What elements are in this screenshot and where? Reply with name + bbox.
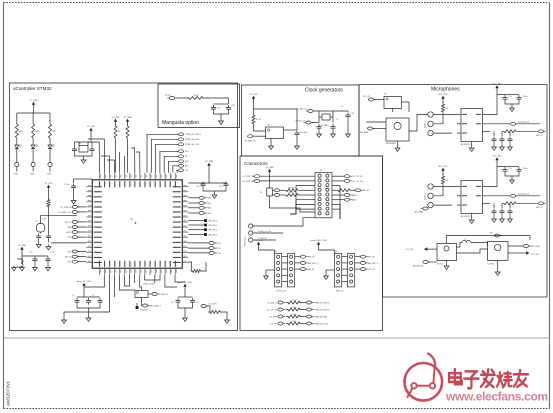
- wire J1r UC_JTJ_TXa: [332, 180, 344, 182]
- svg-text:JP1/P: JP1/P: [165, 95, 171, 97]
- wire VCC rail2 2: [505, 166, 519, 168]
- wire mic gnd 1: [433, 132, 452, 134]
- svg-text:C 1u: C 1u: [508, 168, 512, 170]
- wire C23 gnd: [347, 119, 349, 132]
- capacitor C19: [46, 234, 51, 241]
- resistor R5: [47, 198, 50, 209]
- wire MK1 gnd: [397, 141, 399, 146]
- capacitor C21: [503, 95, 508, 102]
- wire pullup1 stub: [115, 124, 117, 127]
- wire U9 out: [508, 252, 523, 254]
- crystal Y2 32kHz: [37, 224, 45, 233]
- wire U2 down2: [141, 303, 143, 306]
- U8 membrane circle: [444, 246, 449, 251]
- svg-text:ABD7: ABD7: [352, 194, 357, 197]
- pad MK2_BIAS: [423, 207, 428, 210]
- svg-text:U6: U6: [384, 94, 386, 96]
- wire BOOT0: [77, 221, 86, 223]
- U3 pin circle: [268, 129, 270, 131]
- pad PTMB_GB_GPIO1: [178, 133, 183, 136]
- crystal X1: [79, 146, 88, 153]
- wire blockA gnd rail: [77, 305, 100, 308]
- wire J1 UC_SWT_TX: [260, 175, 315, 177]
- arrow input VCC_LIN: [425, 248, 433, 250]
- capacitor C13: [86, 298, 91, 305]
- wire capc1b 1: [501, 143, 503, 145]
- wire capc2b 2: [509, 215, 511, 217]
- svg-text:www.elecfans.com: www.elecfans.com: [445, 390, 548, 404]
- wire crystal vdd: [90, 134, 92, 142]
- svg-text:PTMB_GB_CKIO: PTMB_GB_CKIO: [185, 144, 200, 146]
- wire cap gnd rail 1: [505, 102, 519, 104]
- ground C15: [46, 266, 51, 271]
- pad UC_EMB_CK: [248, 135, 253, 138]
- svg-text:GPD: GPD: [67, 262, 72, 264]
- pad all_OSC_CK: [306, 121, 311, 124]
- capacitor C27: [211, 105, 216, 112]
- svg-text:GND: GND: [30, 174, 35, 176]
- pad MIC_CK: [368, 98, 373, 101]
- wire U3 out: [284, 129, 298, 131]
- pad PTMB_GB_SDIO: [178, 138, 183, 141]
- wire JP1 to R100: [175, 97, 189, 99]
- watermark text shao (burn): [497, 372, 512, 388]
- capacitor C16: [201, 182, 206, 189]
- oscillator U2: [135, 291, 148, 298]
- wire cap top rail: [214, 103, 229, 105]
- wire C23 top: [347, 111, 349, 112]
- resistor R21: [502, 202, 518, 205]
- wire R13 to gnd: [222, 312, 227, 318]
- pad UC_JTC_IN: [278, 308, 283, 311]
- capacitor C11: [90, 147, 95, 154]
- wire fuse top: [269, 175, 271, 189]
- wire pullup1 to pin: [115, 140, 117, 173]
- svg-text:AKT_IN: AKT_IN: [65, 256, 72, 259]
- wire U1 top net2: [107, 160, 115, 173]
- wire AUTE: [77, 231, 86, 233]
- pad EN: [494, 234, 499, 237]
- svg-text:2k2: 2k2: [446, 180, 449, 182]
- wire JP2: [188, 220, 204, 222]
- capacitor C22: [517, 95, 522, 102]
- resistor R100: [187, 97, 205, 100]
- page border frame left: [3, 3, 5, 409]
- ground Mangusta: [219, 119, 224, 124]
- power VCC_MIC row1: [496, 88, 498, 91]
- wire J1 SCL drop: [290, 204, 296, 214]
- ground J3: [324, 274, 329, 279]
- section box Clock generators: [242, 85, 360, 156]
- wire C21 gnd: [318, 131, 320, 132]
- wire PB11: [188, 202, 199, 204]
- svg-text:C7: C7: [336, 119, 338, 121]
- capacitor C21: [317, 124, 322, 131]
- arrow output VCC_MIC: [523, 252, 528, 254]
- svg-text:R 47k: R 47k: [292, 321, 297, 323]
- wire U9 gnd: [497, 261, 499, 271]
- svg-text:R9 0R: R9 0R: [288, 192, 294, 194]
- wire C15 gnd: [47, 263, 49, 266]
- watermark logo pad B: [430, 383, 435, 388]
- wire J1 SDA drop: [290, 200, 296, 214]
- svg-text:Connectors: Connectors: [244, 161, 268, 166]
- svg-text:GPO: GPO: [67, 251, 72, 253]
- wire U9 out2: [508, 245, 523, 247]
- wire U8 to L2: [457, 243, 461, 248]
- pad PTMB_GB_CKIO: [178, 143, 183, 146]
- svg-text:ST1S12: ST1S12: [437, 263, 444, 265]
- U1 bottom pin names: [99, 261, 176, 267]
- wire PC12: [188, 252, 209, 254]
- pad GPD: [72, 260, 77, 263]
- svg-text:12pF: 12pF: [42, 219, 46, 221]
- svg-text:UC_RX: UC_RX: [271, 323, 278, 325]
- svg-text:C 100n: C 100n: [522, 96, 528, 98]
- svg-text:C20 100n: C20 100n: [300, 132, 308, 134]
- svg-text:LD3985: LD3985: [488, 263, 494, 265]
- ground caps row2: [510, 178, 515, 183]
- wire bottom to U2: [120, 275, 136, 290]
- test connector P2: [249, 231, 253, 235]
- wire to crystal ground: [83, 156, 85, 158]
- wire U1 out: [483, 123, 511, 125]
- wire pad to R13: [206, 306, 210, 312]
- svg-text:VC_VBB: VC_VBB: [18, 245, 27, 247]
- capacitor C12: [71, 184, 76, 191]
- pad MB_DATA: [142, 304, 147, 307]
- svg-text:UC_BAT_U: UC_BAT_U: [267, 301, 277, 304]
- svg-text:MB_DATA_2: MB_DATA_2: [150, 304, 161, 307]
- svg-text:PB11: PB11: [207, 203, 211, 205]
- ground capc1 row2: [500, 217, 505, 222]
- svg-text:GND: GND: [14, 174, 19, 176]
- svg-text:UC_SWT_RX: UC_SWT_RX: [242, 181, 254, 183]
- ground capc2 row1: [508, 145, 513, 150]
- wire UC_SWD_OUT: [77, 211, 86, 213]
- capacitor C27: [517, 167, 522, 174]
- wire J1r GN drop: [332, 204, 340, 219]
- pad UC_JTJ_TXa: [344, 179, 349, 182]
- wire cap gnd stub 2: [511, 176, 513, 178]
- wire U2 out: [148, 293, 152, 295]
- svg-text:PW: PW: [185, 170, 188, 172]
- capacitor C14: [98, 298, 103, 305]
- resistor R4: [49, 122, 52, 140]
- resistor R19: [502, 130, 518, 133]
- svg-text:C23: C23: [351, 113, 354, 115]
- svg-text:UC_SWO: UC_SWO: [209, 304, 218, 306]
- wire pullup2 stub: [127, 124, 129, 127]
- pad UC_JTK_IN: [344, 175, 349, 178]
- wire AKT_IN: [77, 256, 86, 258]
- svg-text:C 1u: C 1u: [508, 96, 512, 98]
- svg-text:VC_VBB: VC_VBB: [30, 100, 39, 102]
- pad MIC_500B: [523, 245, 528, 248]
- wire blockC gnd rail: [178, 305, 193, 308]
- capacitor C20: [295, 131, 300, 138]
- wire bottom to blockC2: [175, 275, 185, 282]
- page border frame bottom: [4, 408, 550, 410]
- pad UC_RX: [278, 322, 283, 325]
- wire J3 gnd row: [326, 269, 335, 271]
- wire C14 gnd: [34, 263, 36, 266]
- wire bottom loop: [125, 275, 130, 286]
- wire GPO: [77, 251, 86, 253]
- wire J2 out1: [295, 262, 301, 264]
- wire DL1 to pin: [16, 151, 18, 163]
- svg-text:UC_VDD: UC_VDD: [249, 94, 258, 96]
- inductor L2: [460, 240, 473, 242]
- svg-text:VCC_MIC: VCC_MIC: [492, 156, 502, 158]
- wire U1 top net5: [131, 148, 135, 173]
- wire brow 316.5: [302, 316, 306, 318]
- wire C10 to X1: [75, 142, 80, 147]
- pad ATB: [72, 226, 77, 229]
- capacitor C12: [75, 298, 80, 305]
- svg-text:C14: C14: [29, 252, 32, 254]
- svg-text:X2 8MHz: X2 8MHz: [321, 125, 329, 127]
- svg-text:C1: C1: [72, 295, 74, 297]
- solder jumper JP2: [204, 219, 207, 222]
- wire U2 out: [483, 195, 511, 197]
- wire U6 down: [392, 109, 394, 113]
- wire J3 row3: [342, 274, 348, 276]
- inductor L1: [17, 259, 23, 267]
- wire C22 gnd: [332, 131, 334, 132]
- svg-text:Mangusta option: Mangusta option: [162, 120, 199, 126]
- wire 32k to U1: [51, 242, 86, 244]
- pad PTMB_GB_GPIO2: [306, 301, 311, 304]
- wire VCC rail 1: [497, 91, 505, 95]
- wire J1r ABD7: [332, 194, 344, 196]
- ground caps row1: [510, 106, 515, 111]
- wire U1 gnd: [471, 142, 473, 147]
- svg-text:PC10: PC10: [217, 243, 222, 245]
- wire NCL to U1: [160, 151, 179, 173]
- power VC_VBB LEDs: [33, 104, 35, 107]
- svg-text:MB_I2S_3: MB_I2S_3: [209, 234, 218, 236]
- power VC_VBB decouple: [21, 249, 23, 252]
- svg-text:MK1_/R: MK1_/R: [536, 135, 543, 137]
- wire J3 gnd drop: [325, 270, 327, 274]
- wire J3 row2: [342, 268, 348, 270]
- wire MK1 in2: [366, 121, 386, 123]
- resistor R13: [208, 311, 222, 314]
- svg-text:MB_RX: MB_RX: [363, 190, 370, 192]
- svg-text:MB_GPIO_2: MB_GPIO_2: [308, 263, 319, 265]
- wire C18 gnd: [38, 240, 40, 242]
- svg-text:PTMB_GB_SEL: PTMB_GB_SEL: [314, 316, 328, 318]
- wire U1 top net3: [119, 152, 121, 173]
- wire C12 top: [73, 179, 75, 183]
- pad AUD_patch 1: [510, 122, 515, 125]
- wire J2 gnd drop: [265, 270, 267, 274]
- wire U2 in2: [457, 204, 461, 206]
- wire capc2 2: [509, 203, 511, 208]
- capacitor C29: [500, 209, 505, 216]
- ground J2: [264, 274, 269, 279]
- wire to R pull: [188, 262, 191, 271]
- svg-text:C17: C17: [219, 186, 222, 188]
- testpoint TP2: [31, 162, 35, 166]
- wire J3 out1: [355, 262, 361, 264]
- MK1 membrane circle: [394, 122, 401, 129]
- svg-text:VCC_MIC: VCC_MIC: [492, 84, 502, 86]
- amplifier U2 MP45DT: [461, 181, 483, 214]
- wire pad U6: [374, 99, 384, 101]
- wire J1r R10l: [332, 189, 336, 191]
- pad AUD_patch 2: [510, 194, 515, 197]
- wire mic bias 1: [433, 115, 443, 124]
- power hdr J3: [318, 244, 320, 247]
- microcontroller U1 STM32 body: [92, 180, 182, 268]
- wire U1 top net1: [101, 156, 110, 173]
- wire DL3 to pin: [49, 151, 51, 163]
- ground crystal: [81, 158, 86, 163]
- wire bottom loop2: [145, 275, 160, 280]
- wire cap bottom rail: [214, 112, 229, 114]
- svg-text:MP45DT01: MP45DT01: [461, 144, 471, 146]
- page border frame right: [549, 3, 551, 409]
- wire J3 row1: [342, 262, 348, 264]
- watermark logo molecule circle: [405, 363, 443, 401]
- power VC_VBB conn: [269, 171, 271, 174]
- pad R8 0R: [274, 189, 279, 192]
- pad MB_CK: [300, 255, 305, 258]
- ground C19: [46, 245, 51, 250]
- LED DL3: [48, 143, 52, 151]
- svg-text:MB_I2S_2: MB_I2S_2: [209, 230, 218, 232]
- U1 designator dot: [135, 222, 137, 224]
- wire J1 GP drop: [290, 209, 296, 214]
- wire brow 309.5: [302, 309, 306, 311]
- svg-text:power UC_VDD: power UC_VDD: [178, 282, 193, 284]
- svg-text:MIC_VDD: MIC_VDD: [438, 166, 448, 168]
- wire J2 row1: [282, 262, 288, 264]
- svg-text:R15: R15: [490, 233, 493, 235]
- ground blockC: [183, 316, 188, 321]
- svg-text:PTMB_GB_GPIO1: PTMB_GB_GPIO1: [185, 134, 201, 136]
- pad UC_SWD_IN: [72, 205, 77, 208]
- svg-text:Clock generators: Clock generators: [305, 88, 343, 94]
- pad MB_GPIO_4: [360, 261, 365, 264]
- watermark text fa (emit): [481, 369, 495, 387]
- wire xtal left node: [318, 111, 320, 123]
- svg-text:M Testport: M Testport: [244, 236, 247, 246]
- ground C21: [317, 132, 322, 137]
- power VC_VDD blockA: [83, 285, 85, 288]
- wire VCC rail 2: [497, 163, 505, 167]
- wire cap gnd rail: [203, 188, 226, 191]
- wire J3 out2: [355, 268, 361, 270]
- watermark logo trace A-B: [417, 385, 430, 387]
- svg-text:VC_VBB: VC_VBB: [87, 126, 96, 128]
- section box uController STM32: [10, 83, 238, 331]
- wire U2 in1: [457, 195, 461, 197]
- LED DL2: [31, 143, 35, 151]
- wire U2 down: [141, 298, 143, 304]
- wire rail to R2: [32, 113, 34, 122]
- power VC_VBB pullup1: [115, 121, 117, 124]
- resistor R11: [284, 189, 300, 192]
- power hdr J2: [258, 244, 260, 247]
- wire J3 out0: [355, 256, 361, 258]
- wire L2 to U9: [473, 243, 488, 247]
- wire xtal right node: [332, 111, 334, 123]
- ground L1: [20, 266, 25, 271]
- pad PTMB_GB_GPIO4: [306, 308, 311, 311]
- wire U1 in0: [457, 114, 461, 116]
- wire J1r MB_CK drop: [332, 186, 340, 219]
- svg-text:CCM8_IN: CCM8_IN: [160, 294, 169, 296]
- svg-text:UC_JTC_IN: UC_JTC_IN: [267, 309, 278, 311]
- pad GPO: [72, 250, 77, 253]
- ground MK1: [395, 146, 400, 151]
- capacitor C24: [500, 137, 505, 144]
- svg-text:Y2: Y2: [35, 221, 37, 223]
- pad BOT: [178, 160, 183, 163]
- ground capc0 row2: [492, 217, 497, 222]
- wire mic gnd 2: [433, 204, 452, 206]
- ground blockA: [86, 316, 91, 321]
- capacitor C15: [46, 257, 51, 264]
- wire BOT to U1: [169, 161, 179, 173]
- wire C12 gnd: [73, 190, 75, 198]
- wire U2 gnd: [471, 214, 473, 219]
- svg-text:PB12: PB12: [207, 208, 212, 210]
- svg-text:VC_VBB: VC_VBB: [205, 161, 214, 163]
- test connector P3: [249, 238, 253, 242]
- svg-text:power PMIC_VDD: power PMIC_VDD: [310, 240, 327, 242]
- ground R13: [225, 318, 230, 323]
- pad AB05: [344, 198, 349, 201]
- wire J1 SDA: [296, 199, 315, 201]
- svg-text:MK2_/R: MK2_/R: [536, 207, 543, 209]
- pad PC11: [209, 247, 214, 250]
- pad MIC_IN: [360, 255, 365, 258]
- wire J2 row0: [282, 256, 288, 258]
- wire J2 row4: [282, 281, 288, 283]
- wire row3 top link: [447, 236, 531, 244]
- pad PC12: [209, 251, 214, 254]
- wire crystal gnd rail: [75, 153, 93, 156]
- U1 top pin names: [99, 181, 176, 187]
- svg-text:MB_IN: MB_IN: [308, 269, 314, 271]
- wire ATB: [77, 226, 86, 228]
- wire MK1 out to conn: [409, 115, 428, 132]
- U1 left pin numbers: [88, 185, 91, 261]
- svg-text:VC_VBB: VC_VBB: [124, 117, 133, 119]
- capacitor C23: [492, 137, 497, 144]
- pad RX: [178, 155, 183, 158]
- ground U1: [469, 146, 474, 151]
- svg-text:AUTE: AUTE: [66, 231, 72, 234]
- resistor R20: [442, 174, 445, 186]
- wire capc0 1: [493, 131, 495, 136]
- pad PB11: [199, 202, 204, 205]
- pad NCL: [178, 150, 183, 153]
- wire RX to U1: [164, 156, 178, 173]
- watermark logo pad A: [411, 383, 416, 388]
- wire Y2 bottom: [40, 232, 42, 234]
- svg-text:VC_VBB: VC_VBB: [266, 167, 275, 169]
- svg-text:AU2_patch_in: AU2_patch_in: [518, 193, 529, 196]
- svg-text:MP34DB02: MP34DB02: [386, 143, 396, 145]
- svg-text:NCL: NCL: [185, 151, 189, 153]
- wire bottom to blockC: [165, 275, 177, 287]
- power UC_VDD blockC: [184, 286, 186, 289]
